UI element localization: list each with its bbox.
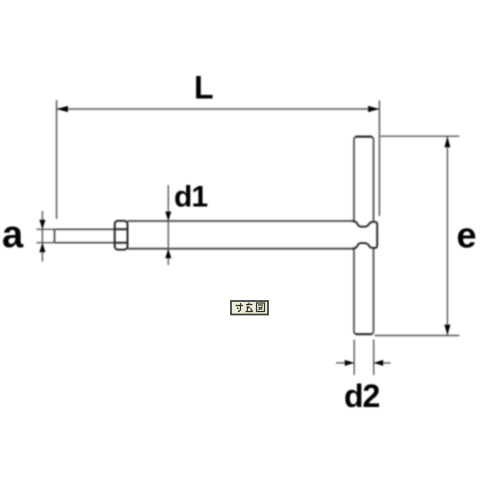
wire thin shaft hex tip outline — [55, 229, 116, 242]
dimension d2 right line — [374, 362, 391, 364]
sunpouzu badge box — [231, 301, 268, 315]
dimension e bottom extension line — [375, 335, 460, 337]
dimension d2 left line — [336, 362, 354, 364]
svg-text:d1: d1 — [174, 181, 207, 214]
dimension d2 extension lines — [354, 340, 374, 376]
dimension L line — [57, 108, 380, 110]
handle upper tube — [354, 137, 374, 222]
dimension d1 vertical line — [167, 185, 169, 265]
dimension d2 left arrow — [345, 360, 355, 366]
badge glyph sun — [236, 303, 244, 312]
svg-text:a: a — [2, 214, 24, 256]
dimension L right arrow — [368, 106, 379, 112]
dimension a bottom arrow — [39, 243, 45, 253]
dimension a vertical line — [41, 211, 43, 262]
dimension a extension lines — [37, 229, 56, 242]
svg-text:d2: d2 — [344, 378, 380, 414]
handle lower tube — [354, 248, 374, 334]
dimension d1 top arrow — [165, 212, 171, 222]
dimension e top arrow — [444, 137, 450, 148]
badge glyph zu — [257, 303, 265, 312]
handle top cap edge — [356, 136, 373, 138]
dimension e bottom arrow — [444, 325, 450, 336]
dimension L extension line right — [378, 101, 380, 217]
handle bottom cap edge — [356, 333, 373, 335]
dimension e vertical line — [446, 137, 448, 336]
junction collar and plug head outline — [352, 221, 377, 249]
dimension L left arrow — [57, 106, 68, 112]
dimension d1 bottom arrow — [165, 249, 171, 259]
dimension L extension line left — [56, 100, 58, 219]
dimension a top arrow — [39, 220, 45, 230]
hex fitting — [115, 221, 128, 250]
dimension e top extension line — [381, 135, 460, 137]
dimension d2 right arrow — [374, 360, 384, 366]
badge glyph hou — [246, 303, 254, 312]
wire wide shaft sleeve top and bottom lines — [128, 221, 353, 249]
svg-text:e: e — [457, 215, 477, 256]
svg-text:L: L — [194, 70, 214, 106]
